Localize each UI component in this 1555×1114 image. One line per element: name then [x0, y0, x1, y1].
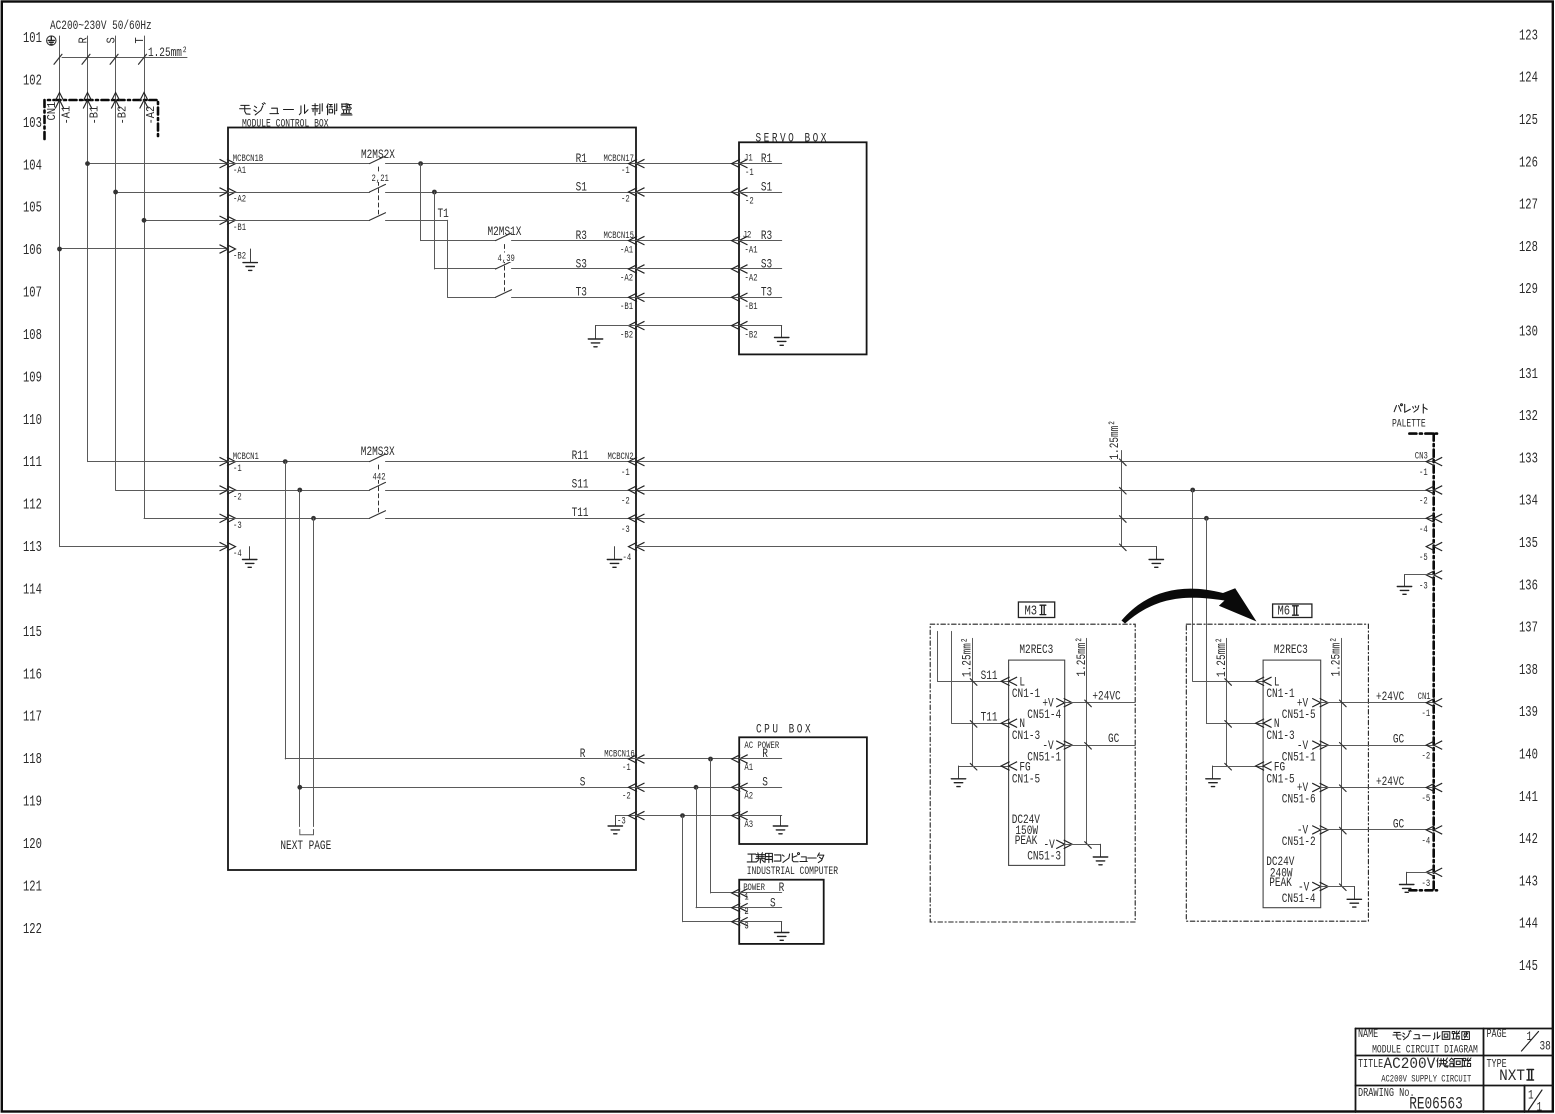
label box M3II: [1018, 602, 1054, 619]
gauge tick on T11: [970, 721, 977, 728]
svg-text:101: 101: [23, 31, 42, 47]
svg-text:1.25mm²: 1.25mm²: [1329, 637, 1344, 677]
wire R3 stub in servo box: [739, 240, 782, 242]
ground at end of -4 wire: [1149, 547, 1163, 568]
svg-text:-B2: -B2: [620, 328, 633, 341]
svg-text:110: 110: [23, 412, 42, 428]
pin -V peak arrow: [1312, 882, 1328, 891]
junction dot -3 to industrial computer: [680, 813, 685, 818]
svg-text:CN1-3: CN1-3: [1012, 728, 1040, 743]
wire R horizontal to MCBCN16: [285, 758, 636, 760]
connector MCBCN16 pin -2 arrow: [629, 783, 645, 792]
wire from S1 down to S3: [434, 192, 436, 269]
junction dot on wire R: [85, 161, 90, 166]
wire T11 long segment to palette: [386, 518, 1435, 520]
svg-text:PAGE: PAGE: [1487, 1028, 1507, 1042]
wire MCBCN15-B2 stub: [596, 325, 637, 327]
svg-text:CN51-5: CN51-5: [1282, 708, 1316, 723]
svg-text:-B2: -B2: [233, 249, 246, 262]
svg-text:113: 113: [23, 540, 42, 556]
switch M2MS2X pole 1 blade: [370, 156, 386, 164]
title block frame: [1356, 1028, 1553, 1112]
svg-text:A2: A2: [744, 789, 753, 802]
svg-text:120: 120: [23, 837, 42, 853]
svg-text:+24VC: +24VC: [1092, 689, 1120, 704]
connector CN3 pin -4 arrow: [1426, 514, 1442, 523]
svg-text:-4: -4: [1422, 834, 1431, 847]
wire S11 tap down to M6II L: [1192, 490, 1194, 681]
junction dot on S11: [297, 488, 302, 493]
svg-text:132: 132: [1519, 409, 1538, 425]
junction dot on R11: [283, 459, 288, 464]
pin N arrow: [1256, 719, 1272, 728]
ground at MCBCN1B-B2: [243, 249, 257, 270]
wire CN1-3 ground stub: [1407, 872, 1434, 874]
wire T3 left segment: [448, 297, 496, 299]
label industrial computer japanese: [747, 853, 824, 863]
connector pin 2 arrow: [732, 903, 748, 912]
svg-text:-1: -1: [1419, 466, 1428, 479]
wire R1 module box to servo box: [636, 163, 739, 165]
svg-text:129: 129: [1519, 282, 1538, 298]
wire T11 left segment: [228, 518, 370, 520]
wire +24VC output 2: [1321, 787, 1434, 789]
connector CN1 pin arrow R: [83, 93, 92, 109]
wire from S11 down to next page: [299, 490, 301, 827]
wire-gauge line 1.25mm2 left in M6II: [1226, 638, 1228, 766]
svg-text:135: 135: [1519, 536, 1538, 552]
svg-text:AC200~230V 50/60Hz: AC200~230V 50/60Hz: [50, 19, 152, 34]
svg-text:114: 114: [23, 582, 42, 598]
svg-text:A1: A1: [744, 761, 753, 774]
wire T vertical: [144, 36, 146, 518]
svg-text:GC: GC: [1393, 817, 1404, 832]
connector MCBCN1 pin -1 arrow: [220, 457, 236, 466]
svg-text:1.25mm²: 1.25mm²: [148, 46, 188, 61]
svg-text:136: 136: [1519, 578, 1538, 594]
wire down from R to industrial computer: [710, 759, 712, 893]
connector J2 pin -B1 arrow: [732, 293, 748, 302]
pin L arrow: [1001, 677, 1017, 686]
svg-text:TITLE: TITLE: [1358, 1058, 1383, 1072]
ground FG M6II: [1206, 766, 1220, 787]
ground in industrial computer: [775, 922, 789, 941]
wire -V to ground M6II: [1321, 886, 1355, 888]
junction dot on T11: [311, 516, 316, 521]
svg-text:R3: R3: [576, 229, 587, 244]
svg-text:-A1: -A1: [61, 105, 74, 124]
svg-text:R1: R1: [576, 152, 587, 167]
svg-text:-2: -2: [622, 789, 631, 802]
svg-text:111: 111: [23, 455, 42, 471]
connector CN1 pin arrow T: [140, 93, 149, 109]
switch M2MS1X pole 2 blade: [496, 261, 512, 269]
connector MCBCN15 pin -A1 arrow: [629, 236, 645, 245]
svg-text:PEAK: PEAK: [1015, 833, 1038, 848]
junction dot on wire S: [113, 190, 118, 195]
svg-text:442: 442: [373, 470, 386, 483]
wire down from S to industrial computer: [696, 787, 698, 907]
pin +V arrow: [1056, 698, 1072, 707]
svg-text:109: 109: [23, 370, 42, 386]
svg-text:1: 1: [1528, 1088, 1534, 1103]
replacement arrow M3II to M6II: [1122, 588, 1257, 623]
wire A3 stub in CPU box: [739, 815, 782, 817]
wire-gauge annotation line 1.25mm2 horizontal: [62, 57, 187, 59]
connector MCBCN1B pin -A1 arrow: [220, 159, 236, 168]
wire T11 feed in M3II: [952, 631, 1009, 723]
svg-text:MCBCN1B: MCBCN1B: [233, 151, 264, 164]
svg-text:DRAWING No.: DRAWING No.: [1358, 1087, 1415, 1101]
svg-text:R11: R11: [572, 449, 589, 464]
svg-text:1.25mm²: 1.25mm²: [1108, 420, 1123, 460]
connector CN1 pin arrow PE: [55, 93, 64, 109]
connector MCBCN1B pin -B2 arrow: [220, 245, 236, 254]
wire S stub: [739, 907, 782, 909]
ground at CN3-3: [1397, 575, 1411, 594]
wire S branch to MCBCN1B-A2: [116, 192, 228, 194]
svg-text:-2: -2: [1419, 494, 1428, 507]
wire-gauge line 1.25mm2 left in M3II: [972, 638, 974, 766]
svg-text:+24VC: +24VC: [1376, 775, 1404, 790]
CPU BOX enclosure: [739, 737, 867, 844]
svg-text:-1: -1: [621, 466, 630, 479]
wire PE vertical: [59, 36, 61, 547]
connector CN3 pin -5 arrow: [1426, 542, 1442, 551]
SERVO BOX enclosure: [739, 142, 867, 354]
wire -3 module box to CPU box: [636, 815, 739, 817]
wire to industrial computer pin 3: [683, 921, 740, 923]
wire S module box to CPU box: [636, 787, 739, 789]
wire FG in M6II: [1213, 766, 1263, 768]
junction dot R to industrial computer: [708, 757, 713, 762]
svg-text:103: 103: [23, 115, 42, 131]
svg-text:1.25mm²: 1.25mm²: [1075, 637, 1090, 677]
wire R to MCBCN1-1: [88, 461, 229, 463]
svg-text:+24VC: +24VC: [1376, 690, 1404, 705]
connector MCBCN15 pin -B2 arrow: [629, 321, 645, 330]
svg-text:141: 141: [1519, 789, 1538, 805]
gauge tick -V: [1340, 884, 1347, 891]
ground at MCBCN15-B2: [588, 326, 602, 347]
svg-text:-B1: -B1: [233, 221, 246, 234]
svg-text:R: R: [779, 881, 785, 896]
svg-text:127: 127: [1519, 197, 1538, 213]
left grid row numbers 101-122: [23, 31, 42, 938]
svg-text:INDUSTRIAL COMPUTER: INDUSTRIAL COMPUTER: [747, 865, 838, 878]
ground at MCBCN16-3: [608, 816, 622, 834]
svg-text:CN1-5: CN1-5: [1266, 772, 1294, 787]
connector pin A1 arrow: [732, 755, 748, 764]
switch M2MS1X contact label 4,39: [497, 253, 514, 263]
label AC200V supply circuit japanese: [1384, 1054, 1471, 1073]
wire S1 left segment: [228, 192, 370, 194]
svg-text:106: 106: [23, 243, 42, 259]
wire GC output 2: [1321, 829, 1434, 831]
wire MCBCN2-4 to ground tail: [636, 546, 1156, 548]
junction dot on R1: [418, 161, 423, 166]
svg-text:-1: -1: [622, 761, 631, 774]
svg-text:S11: S11: [981, 668, 998, 683]
pin +V arrow: [1312, 698, 1328, 707]
switch M2MS3X pole 1 blade: [370, 454, 386, 462]
wire R vertical: [87, 36, 89, 462]
pin -V2 arrow: [1312, 826, 1328, 835]
svg-text:CN1-3: CN1-3: [1266, 728, 1294, 743]
svg-text:2,21: 2,21: [372, 172, 389, 185]
junction dot on wire PE: [57, 247, 62, 252]
svg-text:GC: GC: [1108, 732, 1119, 747]
switch M2MS1X mechanical link dashed: [504, 245, 506, 292]
wire R1 stub in servo box: [739, 163, 782, 165]
svg-text:J1: J1: [744, 151, 753, 164]
svg-text:CN51-4: CN51-4: [1027, 708, 1061, 723]
svg-text:GC: GC: [1393, 732, 1404, 747]
switch M2MS3X mechanical link dashed: [378, 465, 380, 512]
pin -V arrow: [1056, 741, 1072, 750]
wire pin3 stub: [739, 921, 782, 923]
INDUSTRIAL COMPUTER enclosure: [739, 880, 824, 944]
svg-text:CN1: CN1: [47, 101, 60, 120]
wire GC output M3II: [1065, 745, 1136, 747]
svg-text:MCBCN1: MCBCN1: [233, 449, 259, 462]
connector MCBCN17 pin -1 arrow: [629, 159, 645, 168]
svg-text:CN3: CN3: [1415, 449, 1428, 462]
svg-text:M3: M3: [1025, 603, 1038, 619]
wire T1 down to T3: [447, 220, 449, 297]
svg-text:CPU BOX: CPU BOX: [756, 722, 813, 737]
svg-text:-A2: -A2: [233, 192, 246, 205]
svg-text:125: 125: [1519, 113, 1538, 129]
connector pin A3 arrow: [732, 811, 748, 820]
switch M2MS3X pole 2 blade: [370, 482, 386, 490]
svg-text:123: 123: [1519, 28, 1538, 44]
wire T11 tap down to M6II N: [1206, 518, 1208, 723]
gauge tick on R wire: [82, 54, 90, 64]
label palette japanese: [1394, 404, 1427, 413]
connector CN1 pin -1 arrow: [1426, 698, 1442, 707]
switch M2MS3X contact label 442: [372, 471, 386, 481]
junction dot on S1: [432, 190, 437, 195]
junction dot T11 tap to M6II: [1204, 516, 1209, 521]
wire R3 module box to servo box: [636, 240, 739, 242]
svg-text:M2MS2X: M2MS2X: [361, 148, 395, 163]
wire T1 left segment: [228, 220, 370, 222]
wire +24VC output 1: [1321, 702, 1434, 704]
switch M2MS2X contact label 2,21: [371, 173, 388, 183]
gauge tick on FG: [970, 763, 977, 770]
svg-text:J2: J2: [743, 228, 752, 241]
wire S1 middle segment: [386, 192, 637, 194]
connector MCBCN2 pin -3 arrow: [629, 514, 645, 523]
connector pin 3 arrow: [732, 917, 748, 926]
svg-text:M2REC3: M2REC3: [1274, 643, 1308, 658]
ground in servo box: [775, 326, 789, 346]
svg-text:139: 139: [1519, 705, 1538, 721]
rectifier M2REC3 box (M6II): [1263, 660, 1321, 908]
wire -3 ground stub inside module box: [615, 815, 636, 817]
junction dot S to industrial computer: [694, 785, 699, 790]
svg-text:MODULE CONTROL BOX: MODULE CONTROL BOX: [242, 117, 329, 130]
svg-text:-B1: -B1: [745, 300, 758, 313]
svg-text:131: 131: [1519, 366, 1538, 382]
wire R11 left segment: [228, 461, 370, 463]
wire S stub in CPU box: [739, 787, 782, 789]
wire B2 stub in servo box: [739, 325, 782, 327]
wire R3 left segment: [421, 240, 496, 242]
svg-text:-1: -1: [233, 462, 242, 475]
connector MCBCN1 pin -4 arrow: [220, 542, 236, 551]
wire to industrial computer pin 2: [696, 907, 739, 909]
svg-text:S: S: [106, 37, 119, 44]
wire R branch to MCBCN1B-A1: [88, 163, 229, 165]
svg-text:4,39: 4,39: [498, 252, 515, 265]
svg-text:2: 2: [744, 905, 748, 918]
svg-text:133: 133: [1519, 451, 1538, 467]
connector J1 pin -2 arrow: [732, 188, 748, 197]
svg-text:CN51-1: CN51-1: [1027, 750, 1061, 765]
wire S1 stub in servo box: [739, 192, 782, 194]
svg-text:CN1-5: CN1-5: [1012, 772, 1040, 787]
switch M2MS3X pole 3 blade: [370, 511, 386, 519]
wire GC output 1: [1321, 745, 1434, 747]
wire T11 tap feed to N: [1206, 723, 1263, 725]
wire R1 left segment: [228, 163, 370, 165]
pin -V arrow: [1312, 741, 1328, 750]
gauge tick on FG: [1225, 763, 1232, 770]
svg-text:144: 144: [1519, 916, 1538, 932]
wire S to MCBCN1-2: [116, 490, 228, 492]
wire-gauge line 1.25mm2 right in M3II: [1086, 638, 1088, 844]
svg-text:R: R: [78, 37, 91, 44]
svg-text:-1: -1: [1422, 707, 1431, 720]
MODULE CONTROL BOX enclosure: [228, 128, 636, 871]
connector MCBCN2 pin -2 arrow: [629, 486, 645, 495]
connector J2 pin -A1 arrow: [732, 236, 748, 245]
ground FG M3II: [951, 766, 965, 787]
svg-text:137: 137: [1519, 620, 1538, 636]
gauge tick S11: [1120, 487, 1127, 494]
svg-text:105: 105: [23, 200, 42, 216]
svg-text:S3: S3: [576, 257, 587, 272]
next page continuation bracket: [300, 830, 314, 835]
gauge tick on L: [1225, 679, 1232, 686]
pin +V2 arrow: [1312, 783, 1328, 792]
wire S3 left segment: [434, 268, 495, 270]
connector MCBCN2 pin -1 arrow: [629, 457, 645, 466]
gauge tick R11: [1120, 459, 1127, 466]
wire S11 long segment to palette: [386, 490, 1435, 492]
svg-text:115: 115: [23, 624, 42, 640]
svg-text:R: R: [580, 747, 586, 762]
wire -V to ground M3II: [1065, 844, 1101, 846]
gauge tick +24VC: [1085, 700, 1092, 707]
svg-text:AC200V: AC200V: [1384, 1054, 1437, 1073]
gauge tick +24VC 2: [1340, 785, 1347, 792]
wire T to MCBCN1-3: [144, 518, 228, 520]
svg-text:-A2: -A2: [745, 271, 758, 284]
svg-text:-1: -1: [621, 164, 630, 177]
svg-text:S: S: [580, 775, 586, 790]
type NXTII: [1499, 1066, 1533, 1085]
connector pin 1 arrow: [732, 889, 748, 898]
svg-text:-A1: -A1: [620, 243, 633, 256]
svg-text:143: 143: [1519, 874, 1538, 890]
pin FG arrow: [1256, 762, 1272, 771]
svg-text:-5: -5: [1419, 551, 1428, 564]
wire B2 module box to servo box: [636, 325, 739, 327]
svg-text:-3: -3: [621, 522, 630, 535]
pin L arrow: [1256, 677, 1272, 686]
svg-text:-3: -3: [1419, 579, 1428, 592]
svg-text:128: 128: [1519, 239, 1538, 255]
PE protective-earth terminal symbol: [47, 36, 56, 45]
svg-text:CN51-6: CN51-6: [1282, 792, 1316, 807]
svg-text:-A1: -A1: [233, 164, 246, 177]
switch M2MS2X pole 3 blade: [370, 213, 386, 221]
power-supply module M6II dash-dot box: [1186, 624, 1368, 921]
svg-text:S3: S3: [761, 257, 772, 272]
svg-text:119: 119: [23, 794, 42, 810]
svg-text:MCBCN17: MCBCN17: [604, 151, 634, 164]
connector CN1 incoming-power dash-dot box: [45, 100, 159, 139]
wire T branch to MCBCN1B-B1: [144, 220, 228, 222]
wire R3 right segment: [512, 240, 637, 242]
svg-text:134: 134: [1519, 493, 1538, 509]
gauge tick -V: [1085, 842, 1092, 849]
wire S3 stub in servo box: [739, 268, 782, 270]
svg-text:124: 124: [1519, 70, 1538, 86]
wire R stub in CPU box: [739, 758, 782, 760]
svg-text:CN1: CN1: [1418, 689, 1431, 702]
ground at CN1-3: [1400, 872, 1414, 892]
wire R1 middle segment: [386, 163, 637, 165]
svg-text:126: 126: [1519, 155, 1538, 171]
wire S11 feed in M3II: [938, 631, 1009, 681]
connector CN1 pin -3 arrow: [1426, 868, 1442, 877]
svg-text:-A1: -A1: [745, 243, 758, 256]
svg-text:102: 102: [23, 73, 42, 89]
svg-text:-A2: -A2: [146, 106, 159, 125]
wire S11 left segment: [228, 490, 370, 492]
connector pin A2 arrow: [732, 783, 748, 792]
connector MCBCN16 pin -1 arrow: [629, 755, 645, 764]
pin -V peak arrow: [1056, 840, 1072, 849]
gauge tick T11: [1120, 516, 1127, 523]
connector CN1 pin -4 arrow: [1426, 826, 1442, 835]
wire S3 module box to servo box: [636, 268, 739, 270]
svg-text:-B2: -B2: [745, 328, 758, 341]
svg-text:A3: A3: [744, 818, 753, 831]
connector CN3 pin -1 arrow: [1426, 457, 1442, 466]
switch M2MS2X mechanical link dashed: [378, 167, 380, 214]
svg-text:1: 1: [1537, 1100, 1543, 1114]
svg-text:121: 121: [23, 879, 42, 895]
gauge tick on S11: [970, 679, 977, 686]
svg-text:116: 116: [23, 667, 42, 683]
sheet number 1/1: [1528, 1088, 1542, 1114]
svg-text:R: R: [762, 747, 768, 762]
connector CN1 pin -5 arrow: [1426, 783, 1442, 792]
wire T3 stub in servo box: [739, 297, 782, 299]
svg-text:-2: -2: [233, 490, 242, 503]
wire-gauge annotation line 1.25mm2 vertical near palette: [1121, 451, 1123, 547]
gauge tick +24VC 1: [1340, 700, 1347, 707]
svg-text:AC200V SUPPLY CIRCUIT: AC200V SUPPLY CIRCUIT: [1381, 1073, 1471, 1085]
switch M2MS2X pole 2 blade: [370, 184, 386, 192]
svg-text:R1: R1: [761, 152, 772, 167]
svg-text:-3: -3: [233, 519, 242, 532]
